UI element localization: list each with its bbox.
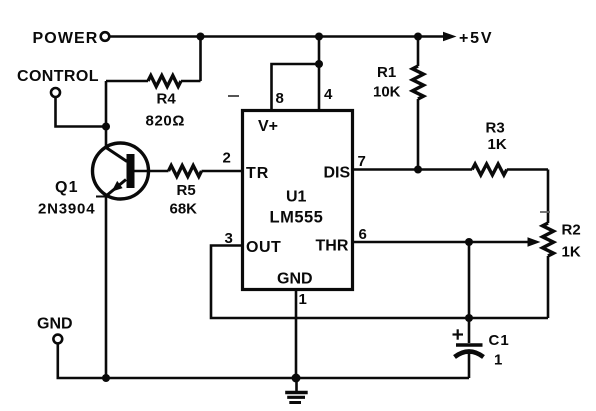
ground <box>285 378 308 403</box>
svg-text:GND: GND <box>37 316 73 333</box>
capacitor C1 <box>453 329 510 378</box>
wire R4 right lead up to +5V rail <box>199 37 202 82</box>
svg-text:R5: R5 <box>177 182 196 199</box>
svg-text:7: 7 <box>358 153 366 170</box>
junction ground rail / pin 1 <box>292 374 301 383</box>
svg-text:U1: U1 <box>286 189 307 206</box>
node CONTROL terminal <box>17 68 99 97</box>
resistor R1 <box>373 37 424 170</box>
pin 1 wire <box>296 289 307 378</box>
wire top +5V rail <box>110 35 445 38</box>
resistor R3 <box>472 120 548 176</box>
svg-text:10K: 10K <box>373 84 401 101</box>
junction CONTROL / collector branch <box>102 123 110 131</box>
pin 4 wire <box>319 37 333 110</box>
svg-text:LM555: LM555 <box>270 209 324 227</box>
svg-text:1: 1 <box>494 352 502 369</box>
wire R3 to R2 top <box>547 170 550 224</box>
svg-text:2N3904: 2N3904 <box>38 201 95 218</box>
svg-text:R4: R4 <box>157 91 177 108</box>
svg-text:TR: TR <box>246 165 269 182</box>
junction top rail / R1 <box>414 33 422 41</box>
potentiometer R2 <box>543 222 581 261</box>
wire junction down to C1 <box>468 242 471 343</box>
svg-text:R3: R3 <box>486 120 505 137</box>
svg-text:68K: 68K <box>170 201 198 218</box>
wire R2 bottom to OUT rail <box>547 256 550 318</box>
junction R1 / DIS wire <box>414 166 422 174</box>
svg-text:4: 4 <box>324 86 333 103</box>
svg-text:+5V: +5V <box>459 30 493 47</box>
svg-text:1K: 1K <box>488 136 507 153</box>
svg-text:POWER: POWER <box>33 30 99 47</box>
junction ground rail / emitter <box>102 374 110 382</box>
svg-text:1: 1 <box>299 291 307 308</box>
node POWER terminal <box>33 30 110 47</box>
wire scan mark near V+ <box>228 95 239 97</box>
svg-text:3: 3 <box>225 230 233 247</box>
junction top rail / pin 4 <box>315 33 323 41</box>
svg-text:DIS: DIS <box>324 165 351 182</box>
svg-text:R1: R1 <box>377 64 396 81</box>
wire R4 left lead down to collector <box>105 81 108 147</box>
node +5V arrow <box>443 30 493 47</box>
svg-text:CONTROL: CONTROL <box>17 68 99 85</box>
pin 3 OUT wire <box>211 230 548 318</box>
svg-text:820Ω: 820Ω <box>146 113 185 130</box>
resistor R5 <box>169 166 242 218</box>
svg-text:8: 8 <box>276 90 284 107</box>
junction top rail / R4 branch <box>197 33 205 41</box>
svg-text:OUT: OUT <box>246 239 281 256</box>
node GND terminal <box>37 316 73 344</box>
junction pin8 / pin4 <box>315 60 323 68</box>
wire base to R5 <box>135 170 169 173</box>
svg-text:1K: 1K <box>562 244 581 261</box>
svg-text:2: 2 <box>223 150 231 167</box>
junction OUT rail / C1 branch <box>465 314 473 322</box>
wire GND terminal to ground rail <box>58 343 469 378</box>
svg-text:R2: R2 <box>562 222 581 239</box>
resistor R4 <box>106 76 201 130</box>
wire emitter down to ground rail <box>105 196 108 378</box>
pin 8 wire <box>272 64 320 109</box>
svg-text:C1: C1 <box>489 332 510 349</box>
svg-text:V+: V+ <box>258 118 278 135</box>
op-amp U1 LM555 box <box>243 111 353 290</box>
svg-text:GND: GND <box>277 271 313 288</box>
svg-text:6: 6 <box>359 226 367 243</box>
pin 6 THR wire to R2 wiper <box>353 226 541 247</box>
wire scan mark above R2 <box>540 211 550 213</box>
wire CONTROL to base node <box>56 97 107 127</box>
svg-text:THR: THR <box>316 238 349 255</box>
transistor Q1 <box>38 143 149 218</box>
pin 7 DIS wire to R3 <box>353 153 473 170</box>
junction THR wire / C1 branch <box>465 238 473 246</box>
svg-text:Q1: Q1 <box>55 179 79 196</box>
